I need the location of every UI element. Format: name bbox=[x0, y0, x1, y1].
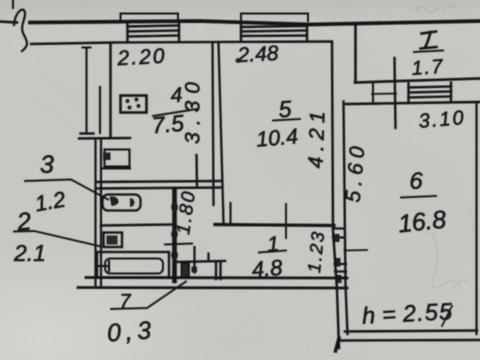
kitchen sink tap square bbox=[103, 153, 111, 161]
kitchen sink shelf line bbox=[103, 168, 130, 170]
kitchen pier serif top bbox=[83, 47, 91, 49]
room6 door tick right bbox=[345, 249, 368, 252]
bathroom left wall line A bbox=[94, 139, 96, 285]
faint bleedthrough left bbox=[30, 70, 82, 126]
pantry door jamb left bbox=[215, 262, 217, 279]
bottom outer wall line2 bbox=[78, 286, 347, 289]
balcony left wall bbox=[354, 25, 357, 83]
bathtub 1 bbox=[103, 195, 141, 211]
window W3 room6 bbox=[409, 83, 452, 103]
hallway-room6 wall blob 3 bbox=[336, 275, 342, 283]
pantry door jamb right bbox=[219, 262, 221, 279]
stove bbox=[121, 96, 147, 113]
kitchen door stub / dim tick bbox=[195, 155, 198, 186]
bathroom right wall blob 1 bbox=[171, 202, 178, 213]
hallway-room6 wall rung 4 bbox=[335, 270, 346, 272]
bathroom right thick wall bbox=[172, 189, 177, 281]
svg-text:1.23: 1.23 bbox=[304, 231, 328, 274]
pantry top line bbox=[177, 261, 226, 262]
leader room3 bbox=[25, 180, 108, 200]
hall step tick bbox=[229, 203, 231, 222]
bottom outer wall line1 bbox=[86, 276, 347, 279]
svg-text:5: 5 bbox=[278, 96, 293, 123]
room5 left wall line A bbox=[213, 43, 214, 205]
stove dot 1 bbox=[126, 99, 130, 103]
leader room2 bbox=[14, 231, 101, 247]
bathroom right wall blob 2 bbox=[171, 250, 178, 260]
bathroom left wall line B bbox=[100, 139, 102, 285]
room5 right wall and hall-room6 boundary bbox=[332, 43, 339, 348]
hallway-room6 wall rung 1 bbox=[333, 227, 344, 229]
WC divider line bbox=[101, 225, 171, 226]
break squiggle bbox=[14, 10, 27, 51]
room6 top wall bbox=[346, 102, 480, 104]
room5 bottom wall bbox=[215, 225, 334, 226]
svg-text:2: 2 bbox=[15, 207, 33, 236]
leader room7 bbox=[111, 282, 186, 310]
svg-text:3.30: 3.30 bbox=[182, 82, 205, 144]
bathtub 2 tap dash bbox=[108, 261, 110, 271]
svg-text:6: 6 bbox=[409, 168, 423, 195]
room5 left wall line B bbox=[219, 43, 224, 222]
height strike bbox=[442, 306, 452, 326]
pantry cross blob bbox=[192, 267, 198, 273]
pantry up tick bbox=[207, 254, 209, 262]
window sill rect W1 bbox=[121, 14, 179, 22]
window W2 bbox=[241, 24, 307, 42]
inner top wall line bbox=[31, 42, 332, 45]
balcony door tick bbox=[372, 93, 396, 96]
room6 right wall bbox=[475, 103, 477, 334]
svg-text:16.8: 16.8 bbox=[397, 206, 448, 239]
pantry cross vertical bbox=[193, 247, 195, 273]
hallway-room6 wall rung 2 bbox=[333, 236, 345, 238]
hallway-room6 wall blob 2 bbox=[335, 258, 341, 267]
svg-text:7.5: 7.5 bbox=[151, 110, 185, 139]
svg-text:0,3: 0,3 bbox=[106, 316, 152, 347]
outer top wall main line bbox=[30, 21, 480, 25]
washbasin inner fill bbox=[107, 236, 118, 245]
room6 left wall line B bbox=[344, 102, 348, 335]
label balcony bar bbox=[414, 51, 443, 53]
room6 bottom wall line2 bbox=[341, 339, 480, 342]
svg-text:2.48: 2.48 bbox=[236, 42, 279, 67]
room6 left wall bottom arrow tip bbox=[336, 338, 340, 351]
stove dot 3 bbox=[128, 106, 132, 110]
kitchen niche line bbox=[99, 87, 101, 133]
stove dot 4 bbox=[137, 104, 141, 108]
svg-text:1.2: 1.2 bbox=[33, 187, 67, 217]
label room5 bar bbox=[273, 119, 300, 121]
svg-text:h = 2.55: h = 2.55 bbox=[361, 298, 453, 329]
kitchen sink bbox=[105, 150, 130, 167]
washbasin bbox=[104, 233, 123, 248]
balcony door leaf bbox=[395, 58, 396, 128]
top edge tick bbox=[12, 0, 14, 8]
pantry box bbox=[182, 263, 190, 277]
window W1 bbox=[128, 23, 180, 42]
svg-text:5.60: 5.60 bbox=[342, 145, 370, 203]
svg-text:3: 3 bbox=[40, 151, 54, 179]
faint bleedthrough handwriting top right bbox=[415, 6, 454, 12]
ink dot bbox=[236, 58, 241, 63]
faint bleedthrough handwriting bottom right bbox=[432, 210, 473, 290]
bathtub 2 inner tub bbox=[105, 259, 163, 274]
room6 bottom wall line1 bbox=[345, 331, 477, 332]
svg-text:2.1: 2.1 bbox=[13, 240, 46, 266]
svg-text:7: 7 bbox=[119, 291, 131, 313]
bathtub 2 tap line bbox=[97, 265, 109, 267]
kitchen bottom wall line1 bbox=[96, 181, 220, 182]
kitchen recess jog line bbox=[79, 137, 130, 140]
stove dot 2 bbox=[135, 98, 139, 102]
balcony door jamb stub bbox=[372, 83, 374, 102]
svg-text:10.4: 10.4 bbox=[255, 124, 299, 152]
balcony bottom line bbox=[355, 79, 480, 83]
outer top wall left stub bbox=[0, 22, 17, 23]
window sill rect W2 bbox=[241, 14, 308, 22]
label room6 bar bbox=[401, 196, 436, 198]
kitchen bottom wall line2 bbox=[96, 188, 220, 189]
bathtub 1 half moon bbox=[130, 198, 135, 207]
svg-text:4.21: 4.21 bbox=[305, 111, 330, 169]
label balcony number bbox=[421, 32, 437, 49]
bathtub 1 drain blob bbox=[110, 196, 119, 206]
kitchen pier line bbox=[85, 48, 87, 133]
svg-text:4.8: 4.8 bbox=[251, 255, 284, 283]
kitchen left wall bbox=[109, 43, 112, 137]
room5 door tick bbox=[285, 204, 287, 238]
bathtub 2 outer box bbox=[97, 252, 169, 278]
label hall bar bbox=[259, 251, 286, 253]
kitchen pier serif bottom bbox=[81, 132, 94, 134]
svg-text:1.7: 1.7 bbox=[411, 56, 444, 80]
svg-text:2.20: 2.20 bbox=[116, 45, 165, 70]
label room4 bar bbox=[153, 109, 197, 116]
hallway-room6 wall rung 3 bbox=[335, 263, 347, 265]
dim tick 180 bbox=[165, 244, 192, 245]
svg-text:1: 1 bbox=[266, 233, 279, 257]
hallway-room6 wall blob 1 bbox=[334, 234, 340, 242]
svg-text:3.10: 3.10 bbox=[418, 107, 465, 133]
